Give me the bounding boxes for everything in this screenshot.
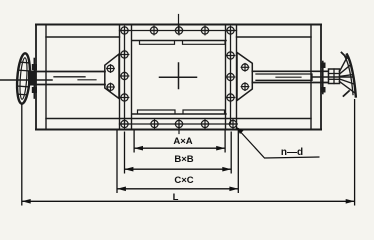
- bolt bottom row 3: [174, 119, 184, 129]
- bolt bottom row 4: [200, 119, 210, 129]
- bolt left bracket lower: [106, 83, 115, 92]
- dimension C x C: [117, 131, 238, 194]
- svg-text:B×B: B×B: [174, 154, 193, 165]
- right shaft centerline: [312, 76, 354, 78]
- bolt top row 5: [226, 26, 236, 36]
- svg-text:L: L: [173, 192, 179, 203]
- left handwheel rim: [16, 53, 32, 104]
- bolt left column 2: [120, 71, 130, 81]
- bolt left column 1: [120, 50, 130, 60]
- bolt right column 3: [226, 93, 236, 103]
- bolt left column 3: [120, 93, 130, 103]
- svg-text:A×A: A×A: [173, 136, 192, 147]
- svg-text:n—d: n—d: [281, 147, 303, 158]
- flange bolt pitch lines horizontal: [120, 31, 237, 125]
- center cross mark: [160, 63, 197, 89]
- flange opening (inner square): [132, 41, 226, 115]
- right screw shaft: [252, 71, 328, 82]
- flange bolts: [106, 26, 249, 129]
- flange plate right strip: [226, 25, 237, 130]
- left handwheel hub: [28, 71, 36, 86]
- dimension L: [22, 99, 355, 206]
- bolt right bracket upper: [241, 63, 250, 72]
- dimension A x A: [134, 131, 225, 153]
- top centerline: [178, 15, 180, 33]
- gate blade top lip: [140, 41, 226, 45]
- left mounting bracket: [105, 54, 119, 99]
- left bearing plate: [32, 59, 37, 99]
- bolt top row 2: [149, 26, 159, 36]
- left screw shaft: [34, 72, 105, 85]
- left end plate: [36, 25, 46, 130]
- left shaft centerline: [0, 79, 52, 81]
- bolt right column 2: [226, 72, 236, 82]
- bolt right bracket lower: [241, 82, 250, 91]
- valve body top rail: [36, 25, 321, 38]
- bottom centerline stub: [178, 124, 180, 134]
- bolt bottom row 2: [150, 119, 160, 129]
- flange plate left strip: [120, 25, 132, 130]
- bolt left bracket upper: [106, 64, 115, 73]
- right handwheel hub: [329, 69, 340, 84]
- gate blade bottom lip: [138, 110, 225, 114]
- right end plate: [311, 25, 321, 130]
- bolt right column 1: [226, 51, 236, 61]
- valve body bottom rail: [36, 119, 321, 130]
- bolt bottom row 5: [228, 119, 238, 129]
- bolt bottom row 1: [120, 119, 130, 129]
- right handwheel spokes: [340, 57, 356, 94]
- dimension B x B: [125, 132, 232, 174]
- right handwheel rim: [342, 53, 356, 97]
- bolt top row 1: [120, 26, 130, 36]
- leader line n-d: [236, 127, 320, 158]
- svg-text:C×C: C×C: [174, 175, 193, 186]
- right mounting bracket: [237, 53, 252, 101]
- bolt top row 3: [174, 26, 184, 36]
- right bearing plate: [321, 62, 326, 94]
- bolt top row 4: [200, 26, 210, 36]
